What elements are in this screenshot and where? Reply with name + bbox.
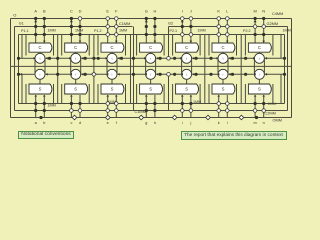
svg-text:P1.1: P1.1 <box>21 29 29 33</box>
svg-text:C: C <box>38 45 41 50</box>
svg-text:S: S <box>149 87 152 92</box>
svg-text:G1: G1 <box>19 22 24 26</box>
svg-text:b: b <box>43 121 45 125</box>
bus line P (bottom) <box>19 103 285 105</box>
output wires column 7 <box>255 95 264 118</box>
svg-text:P2.2: P2.2 <box>243 29 251 33</box>
svg-text:S: S <box>74 87 77 92</box>
carry wire top gap 2 <box>81 57 107 60</box>
bus line O (top) <box>11 18 292 20</box>
wire delay to S1 <box>39 79 41 84</box>
svg-text:1MM: 1MM <box>119 28 127 32</box>
link button: report link <box>181 131 287 141</box>
node G1 label <box>19 22 24 26</box>
junction dots line2 column 1 <box>34 25 46 28</box>
output arrow up column 2 <box>70 20 73 22</box>
carry wire bottom gap 6 <box>229 73 256 76</box>
carry wire bottom gap 3 <box>118 73 147 76</box>
bus line P (top) <box>19 34 285 36</box>
svg-text:1MM: 1MM <box>283 28 291 32</box>
svg-text:O: O <box>13 13 16 18</box>
junction dots line1 column 1 <box>34 17 46 20</box>
bus line O (bottom) <box>11 117 292 119</box>
svg-text:1MM: 1MM <box>75 28 83 32</box>
middle bus line <box>11 65 292 67</box>
register C6 <box>212 43 235 52</box>
net 1MM label col5 <box>198 28 206 32</box>
register S5 <box>176 84 199 94</box>
carry wire bottom gap 4 <box>156 73 183 76</box>
svg-text:f: f <box>116 121 118 125</box>
svg-text:C1MM: C1MM <box>119 22 130 26</box>
arrow into C5 <box>190 41 193 43</box>
net G2MM label <box>267 22 279 26</box>
rail G2 gap 4 <box>167 27 171 111</box>
svg-text:i: i <box>182 121 183 125</box>
junction dots line2 column 7 <box>253 25 265 29</box>
arrows into S6 <box>217 95 220 97</box>
input wires column 7 <box>255 19 264 44</box>
net 1MM label bottom right <box>268 102 276 106</box>
wire C5 to delay <box>186 52 188 53</box>
register S2 <box>65 84 88 94</box>
gate label P1.2 <box>94 29 102 33</box>
junction dots line3 column 1 <box>34 33 46 36</box>
arrows into S3 <box>106 95 117 97</box>
enclosure column 4 <box>137 35 165 104</box>
carry wire top gap 5 <box>192 57 219 60</box>
junction dot bottom rail m <box>255 116 258 119</box>
svg-text:C: C <box>110 45 113 50</box>
svg-text:I: I <box>182 9 183 14</box>
wire delay to S2 <box>75 79 77 84</box>
register S4 <box>140 84 163 94</box>
junction dots bottom line3 column 6 <box>217 102 229 106</box>
svg-text:G2: G2 <box>168 22 173 26</box>
net 1MM label col3 <box>119 28 127 32</box>
svg-text:C2MM: C2MM <box>265 111 276 115</box>
svg-text:m: m <box>254 121 257 125</box>
input wires column 4 <box>146 19 155 44</box>
svg-text:S: S <box>222 87 225 92</box>
carry wire top gap 4 <box>156 57 182 60</box>
input wires column 6 <box>219 19 228 44</box>
svg-text:S: S <box>111 87 114 92</box>
svg-text:l: l <box>227 121 228 125</box>
delay element D3 <box>107 53 117 79</box>
junction dots line3 column 6 <box>217 33 229 37</box>
arrows into S4 <box>145 95 148 97</box>
input wires column 3 <box>108 19 117 44</box>
wire delay to S3 <box>111 79 113 84</box>
register C5 <box>176 43 199 52</box>
svg-text:H: H <box>153 9 156 14</box>
delay element D4 <box>146 53 156 79</box>
junction dots line2 column 5 <box>181 25 193 28</box>
svg-text:K: K <box>217 9 220 14</box>
net C4MM label <box>272 12 283 16</box>
svg-text:S: S <box>185 87 188 92</box>
junction dots bottom line2 column 5 <box>181 109 193 113</box>
net 1MM label bottom col3 <box>108 100 116 104</box>
svg-text:J: J <box>190 9 192 14</box>
arrows into S2 <box>70 95 73 97</box>
wire delay to S4 <box>150 79 152 84</box>
input wires column 5 <box>182 19 191 44</box>
svg-text:C: C <box>149 45 152 50</box>
output arrow up column 7 <box>254 20 257 22</box>
carry wire top gap 6 <box>229 57 256 60</box>
svg-text:C: C <box>70 9 73 14</box>
wire C3 to delay <box>111 52 113 53</box>
elbow wire left <box>21 35 23 104</box>
wire delay to S7 <box>258 79 260 84</box>
arrows into S5 <box>181 95 192 97</box>
svg-text:a: a <box>35 121 38 125</box>
wire delay to S5 <box>186 79 188 84</box>
carry wire bottom gap 1 <box>46 73 73 76</box>
svg-text:OMM: OMM <box>273 118 282 122</box>
junction dots bottom line2 column 4 <box>145 109 157 112</box>
gate label P1.1 <box>21 29 29 33</box>
svg-text:P1.2: P1.2 <box>94 29 102 33</box>
arrows into S1 <box>34 95 45 97</box>
svg-text:C: C <box>74 45 77 50</box>
elbow wire right <box>280 35 282 104</box>
svg-text:L: L <box>226 9 229 14</box>
register C3 <box>101 43 124 52</box>
rail P right <box>284 35 286 104</box>
gap rail 2 <box>92 35 97 104</box>
register C1 <box>29 43 52 52</box>
svg-text:n: n <box>263 121 265 125</box>
net C1MM label top <box>119 22 130 26</box>
gap rail 5 <box>204 35 206 104</box>
junction dots bottom line3 column 5 <box>181 102 193 105</box>
junction dots line3 column 4 <box>145 33 157 36</box>
svg-text:C: C <box>221 45 224 50</box>
link button: Notational conventions <box>18 131 74 140</box>
svg-text:t: t <box>150 57 151 61</box>
node G2 label <box>168 22 173 26</box>
svg-text:S: S <box>258 87 261 92</box>
wire C1 to delay <box>39 52 41 53</box>
register S1 <box>29 84 52 94</box>
net 1MM label col1 <box>48 28 56 32</box>
svg-text:g: g <box>145 121 147 125</box>
svg-text:C: C <box>185 45 188 50</box>
output arrow up column 1 <box>34 20 37 22</box>
arrow into C6 <box>226 41 229 43</box>
svg-text:1MM: 1MM <box>48 103 56 107</box>
wire delay to S6 <box>222 79 224 84</box>
output wires column 2 <box>71 95 80 118</box>
svg-text:G: G <box>145 9 148 14</box>
output wires column 4 <box>146 95 155 118</box>
svg-text:e: e <box>107 121 109 125</box>
net 1MM label bottom col5 <box>193 100 201 104</box>
junction dots bottom line3 column 4 <box>145 102 157 105</box>
enclosure column 6 <box>209 35 237 104</box>
register C2 <box>65 43 88 52</box>
register S7 <box>248 84 271 94</box>
rail P left <box>18 35 20 104</box>
junction dots line3 column 3 <box>106 33 118 37</box>
wire C2 to delay <box>75 52 77 53</box>
input terminal labels A-N <box>34 9 265 14</box>
rail C1MM gap 3 <box>132 27 135 111</box>
junction dots bottom line2 column 3 <box>106 109 118 113</box>
svg-text:1MM: 1MM <box>268 102 276 106</box>
junction dots bottom line2 column 2 <box>70 109 82 113</box>
junction dots line3 column 5 <box>181 33 193 37</box>
svg-text:D: D <box>79 9 82 14</box>
svg-text:P2.1: P2.1 <box>170 29 178 33</box>
output terminal labels a-n <box>35 121 265 125</box>
output arrow up column 5 <box>181 20 184 22</box>
svg-text:t: t <box>186 57 187 61</box>
rail O left <box>10 19 12 118</box>
gap rail 1 <box>56 35 59 104</box>
junction dots line1 column 4 <box>145 17 157 20</box>
delay element D6 <box>218 53 228 79</box>
gate label P2.1 <box>170 29 178 33</box>
rail G1 left <box>14 27 16 111</box>
output wires column 6 <box>219 95 228 118</box>
junction dots line2 column 4 <box>145 25 157 28</box>
svg-text:d: d <box>79 121 81 125</box>
junction dots bottom line3 column 1 <box>34 102 46 105</box>
net 1MM label col2 <box>75 28 83 32</box>
wire carry bottom right <box>265 73 286 76</box>
wire C6 to delay <box>222 52 224 53</box>
enclosure column 3 <box>98 35 126 104</box>
input wires column 2 <box>71 19 80 44</box>
wire carry top right <box>265 57 286 60</box>
arrows into S7 <box>254 95 265 97</box>
junction dots bottom line3 column 3 <box>106 102 118 106</box>
output wires column 3 <box>108 95 117 118</box>
delay element D2 <box>71 53 81 79</box>
svg-text:S: S <box>39 87 42 92</box>
gap rail 3a <box>130 35 132 104</box>
register S3 <box>101 84 124 94</box>
junction dots line1 column 3 <box>106 17 118 21</box>
delay element D1 <box>35 53 45 79</box>
svg-text:E: E <box>106 9 109 14</box>
junction dots line1 column 2 <box>70 17 82 21</box>
net 1MM label right end <box>283 28 291 32</box>
wire carry-in top <box>17 57 36 60</box>
svg-text:1MM: 1MM <box>48 28 56 32</box>
svg-text:M: M <box>253 9 256 14</box>
output arrow up column 4 <box>145 20 148 22</box>
node O label <box>13 13 16 18</box>
net 1MM label bottom col1 <box>48 103 56 107</box>
net C2MM label <box>265 111 276 115</box>
arrow into C3 <box>115 41 118 43</box>
input wires column 1 <box>36 19 45 44</box>
svg-text:k: k <box>218 121 220 125</box>
svg-text:j: j <box>189 121 191 125</box>
arrow into C4 <box>154 41 157 43</box>
svg-text:B: B <box>43 9 46 14</box>
carry wire top gap 1 <box>46 57 72 60</box>
delay element D5 <box>182 53 192 79</box>
register C7 <box>248 43 271 52</box>
arrow into C1 <box>43 41 46 43</box>
carry wire top gap 3 <box>118 57 147 60</box>
svg-text:1MM: 1MM <box>198 28 206 32</box>
svg-text:c: c <box>70 121 72 125</box>
enclosure column 5 <box>173 35 201 104</box>
svg-text:F: F <box>115 9 118 14</box>
junction dots line2 column 6 <box>217 25 229 29</box>
junction dots line3 column 7 <box>254 33 266 36</box>
enclosure column 2 <box>62 35 89 104</box>
delay element D7 <box>254 53 264 79</box>
wire C4 to delay <box>150 52 152 53</box>
bus line G1 (top) <box>15 26 133 28</box>
svg-text:N: N <box>262 9 265 14</box>
carry wire bottom gap 2 <box>81 73 108 76</box>
junction dots line2 column 2 <box>70 25 82 28</box>
enclosure column 1 <box>26 35 54 104</box>
register C4 <box>140 43 163 52</box>
rail G2 right <box>287 27 289 111</box>
junction dots bottom line2 column 1 <box>34 109 46 112</box>
output wires column 1 <box>36 95 45 118</box>
junction dots line3 column 2 <box>70 33 82 36</box>
gate label P2.2 <box>243 29 251 33</box>
svg-text:C4MM: C4MM <box>272 12 283 16</box>
junction dots line2 column 3 <box>106 25 118 29</box>
junction dots bottom line3 column 2 <box>70 102 82 105</box>
output wires column 5 <box>182 95 191 118</box>
enclosure column 7 <box>245 35 273 104</box>
junction dots line1 column 5 <box>181 17 193 21</box>
bus line G (bottom) <box>15 110 288 112</box>
svg-text:C: C <box>258 45 261 50</box>
junction diamonds bottom rail <box>72 115 244 120</box>
svg-text:G2MM: G2MM <box>267 22 279 26</box>
net C1MM label bottom <box>135 110 146 114</box>
gap rail 6 <box>240 35 242 104</box>
junction dots line1 column 7 <box>254 17 266 20</box>
junction dots bottom line2 column 6 <box>217 109 229 113</box>
svg-text:A: A <box>34 9 37 14</box>
arrow into C7 <box>262 41 265 43</box>
register S6 <box>212 84 235 94</box>
junction dot bottom rail a <box>39 116 42 119</box>
bus line G2 (top) <box>169 26 288 28</box>
wire C7 to delay <box>258 52 260 53</box>
carry wire bottom gap 5 <box>192 73 219 76</box>
arrow into C2 <box>79 41 82 43</box>
rail O right <box>291 19 293 118</box>
junction dots line1 column 6 <box>217 17 229 21</box>
svg-text:C1MM: C1MM <box>135 110 146 114</box>
junction dots bottom line3 column 7 <box>254 102 266 105</box>
svg-text:h: h <box>154 121 156 125</box>
junction dots bottom line2 column 7 <box>253 109 265 113</box>
wire carry-out bottom left <box>17 73 35 76</box>
net OMM label <box>273 118 282 122</box>
